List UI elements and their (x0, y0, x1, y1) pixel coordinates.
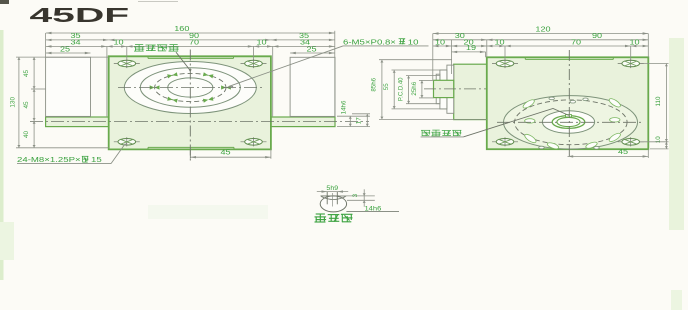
svg-text:40: 40 (23, 131, 30, 139)
svg-text:17: 17 (356, 117, 363, 124)
svg-text:15: 15 (91, 155, 102, 164)
svg-text:70: 70 (571, 38, 582, 46)
svg-text:19: 19 (466, 44, 477, 52)
svg-text:5h9: 5h9 (326, 185, 338, 192)
svg-text:90: 90 (592, 32, 603, 40)
svg-text:14h6: 14h6 (341, 100, 348, 114)
svg-text:45: 45 (220, 149, 231, 157)
svg-text:45DF: 45DF (30, 4, 130, 26)
svg-text:55: 55 (383, 83, 390, 90)
svg-text:160: 160 (174, 25, 190, 33)
svg-text:130: 130 (10, 97, 17, 108)
svg-text:85h6: 85h6 (371, 77, 378, 91)
svg-text:3: 3 (352, 193, 359, 197)
svg-text:10: 10 (256, 39, 267, 47)
svg-text:110: 110 (655, 96, 662, 106)
svg-text:24-M8×1.25P×: 24-M8×1.25P× (17, 155, 81, 164)
svg-text:45: 45 (23, 101, 30, 109)
svg-text:25h6: 25h6 (411, 81, 418, 95)
svg-text:10: 10 (408, 37, 419, 46)
svg-text:10: 10 (494, 38, 505, 46)
svg-text:10: 10 (629, 38, 640, 46)
svg-text:6-M5×P0.8×: 6-M5×P0.8× (343, 37, 396, 46)
svg-text:120: 120 (535, 26, 551, 34)
svg-text:10: 10 (435, 38, 446, 46)
svg-text:34: 34 (70, 39, 81, 47)
svg-text:25: 25 (306, 45, 317, 53)
svg-text:45: 45 (23, 70, 30, 78)
svg-text:45: 45 (618, 148, 629, 156)
svg-text:25: 25 (60, 45, 71, 53)
svg-text:P.C.D.40: P.C.D.40 (398, 77, 404, 101)
svg-text:70: 70 (189, 39, 200, 47)
svg-text:10: 10 (113, 39, 124, 47)
